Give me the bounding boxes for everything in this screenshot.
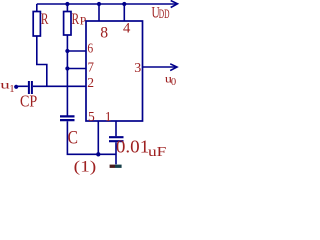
svg-text:7: 7	[88, 59, 95, 75]
wire C bottom lead and bottom rail	[67, 121, 116, 154]
svg-text:1: 1	[105, 109, 112, 124]
wire CP to pin 2	[33, 85, 86, 87]
junction on VDD rail at RP	[65, 2, 69, 6]
wire pin 3 output arrowhead	[170, 64, 177, 71]
node u0 output label	[165, 71, 176, 87]
ground	[110, 165, 122, 168]
node u1 input terminal	[14, 85, 18, 89]
junction at pin 7 wire	[65, 66, 69, 70]
wire RP bottom lead down to capacitor C	[66, 35, 68, 116]
svg-text:uF: uF	[148, 145, 167, 160]
wire VDD rail arrowhead	[171, 1, 178, 8]
junction at pin 6 wire	[65, 49, 69, 53]
svg-text:0.01: 0.01	[116, 137, 149, 156]
wire pin 8	[98, 4, 100, 21]
svg-text:1: 1	[9, 83, 14, 95]
svg-text:5: 5	[88, 109, 95, 124]
svg-text:6: 6	[87, 41, 93, 56]
resistor RP	[64, 12, 71, 36]
svg-text:2: 2	[87, 75, 94, 90]
wire pin 3 output	[143, 66, 177, 68]
svg-text:3: 3	[134, 61, 141, 76]
svg-text:8: 8	[100, 24, 108, 41]
capacitor C1 0.01uF	[109, 137, 124, 141]
svg-text:DD: DD	[159, 8, 170, 21]
junction on VDD rail at pin 8	[97, 2, 101, 6]
resistor R	[33, 12, 40, 37]
wire R bottom lead with jog	[37, 36, 47, 86]
wire pin 1 down to capacitor	[115, 121, 117, 136]
wire to pin 6	[67, 50, 86, 52]
wire to pin 7	[67, 68, 86, 70]
svg-text:CP: CP	[20, 92, 37, 111]
wire u1 to CP	[16, 85, 28, 87]
node UDD label	[152, 4, 170, 22]
svg-text:4: 4	[123, 20, 131, 36]
resistor RP label	[72, 10, 87, 27]
capacitor CP	[29, 81, 32, 94]
junction pin5 / bottom rail	[96, 152, 100, 156]
IC U1 box	[86, 21, 143, 121]
junction on VDD rail at pin 4	[122, 2, 126, 6]
svg-text:C: C	[68, 127, 78, 148]
node u1 input label	[0, 79, 14, 95]
wire R top lead	[36, 4, 38, 12]
wire RP top lead	[66, 4, 68, 12]
svg-text:0: 0	[171, 77, 176, 88]
svg-text:(1): (1)	[74, 157, 97, 175]
wire VDD rail	[37, 3, 177, 5]
capacitor C	[60, 116, 75, 120]
capacitor C1 value label 0.01uF	[116, 137, 167, 159]
wire pin 4	[123, 4, 125, 21]
svg-text:R: R	[41, 11, 49, 28]
svg-text:R: R	[72, 10, 80, 27]
wire capacitor C1 to ground	[115, 142, 117, 164]
wire pin 5 down	[97, 121, 99, 154]
